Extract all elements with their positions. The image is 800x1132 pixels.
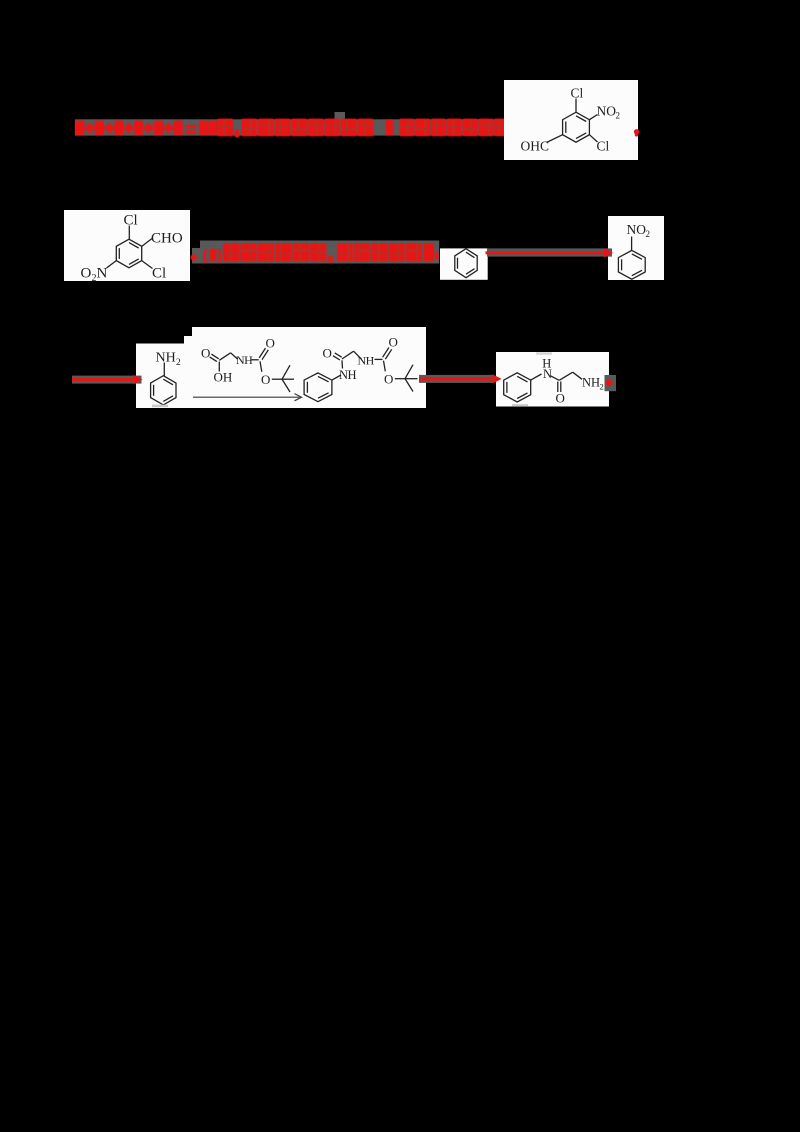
bond ring-N (G) [531, 374, 542, 380]
faint scan smudges [152, 405, 168, 408]
svg-text:2: 2 [600, 382, 604, 392]
tBu branches (F product) [405, 365, 413, 379]
white box G: glycinanilide [496, 352, 609, 407]
red CJK-style run row1 part A [242, 119, 258, 137]
reaction arrow in box F [193, 396, 300, 398]
white box A: 3,5-dichloro-4-nitrobenzaldehyde [504, 80, 638, 160]
bond C-O bottom [260, 361, 262, 372]
bond C-OH [218, 362, 220, 372]
carbamate C=O (F product) [385, 349, 391, 359]
svg-text:N: N [97, 266, 108, 282]
gray highlight band row2 [192, 248, 201, 264]
white box E: aniline [136, 344, 187, 409]
svg-text:O: O [389, 335, 398, 350]
svg-text:Cl: Cl [597, 139, 610, 154]
svg-text:2: 2 [176, 358, 181, 368]
benzene ring box C [455, 249, 477, 278]
svg-text:O: O [81, 266, 92, 282]
svg-text:CHO: CHO [151, 231, 183, 247]
carbamate C=O double bond [262, 350, 268, 360]
svg-text:OHC: OHC [521, 139, 550, 154]
benzene ring box A [563, 112, 590, 142]
svg-text:Cl: Cl [571, 86, 584, 101]
bond O-tBu [272, 378, 282, 380]
C=O double bond down (G) [557, 382, 559, 393]
C=O double bond (F product) [333, 356, 340, 360]
bond O-tBu (F product) [395, 378, 405, 380]
svg-text:O: O [323, 345, 332, 360]
bond+label Cl top (B) [128, 226, 130, 240]
red equals 26 zhong comma row1 [185, 125, 196, 128]
benzene ring box B [116, 239, 141, 268]
svg-text:O: O [261, 372, 270, 387]
white box F: reaction scheme [184, 336, 426, 408]
svg-text:NO: NO [597, 104, 617, 119]
product structure in box F: benzene ring [304, 373, 332, 402]
bond+label Cl lower-right (B) [142, 261, 153, 269]
svg-text:NH: NH [236, 353, 253, 367]
red CJK-style run row1 part B [399, 119, 414, 137]
white box B: 2,6-dichloro-4-nitrobenzaldehyde [64, 210, 190, 281]
gray highlight band row1 [75, 119, 506, 135]
bond CH2-NH2 (G) [573, 372, 582, 379]
red period row2 [191, 254, 197, 260]
svg-text:NH: NH [156, 351, 176, 366]
bond C-CH2 [219, 353, 230, 361]
bond to Cl top (A) [575, 99, 577, 113]
white box C: benzene [440, 248, 488, 279]
bond ring-NH [332, 375, 341, 380]
benzene ring box E [151, 376, 176, 405]
bond C-O bottom (F product) [384, 361, 386, 372]
red arrow row2 [487, 248, 612, 256]
white box D: nitrobenzene [608, 216, 664, 280]
red dot + gray patch after box G [605, 375, 617, 391]
bond CH2-N [231, 353, 238, 359]
tBu branches [282, 365, 290, 379]
bond to NO2 (A) [589, 115, 597, 120]
bond H-C (F product) [375, 358, 383, 360]
svg-text:OH: OH [214, 370, 233, 385]
bond to CHO / label OHC (A) [547, 135, 563, 143]
svg-text:O: O [556, 390, 565, 405]
bond H-C carbamate [252, 359, 259, 361]
red formula text row1: 3+3+6+3+3+3 [75, 119, 509, 138]
red CJK-style run row2 part A [223, 243, 239, 261]
bond to NO2 (D) [631, 237, 633, 251]
red digit row1 [386, 120, 394, 136]
svg-text:N: N [543, 367, 552, 381]
svg-text:Cl: Cl [124, 213, 138, 229]
bond to NH2 (E) [163, 363, 165, 376]
bond N-C (G) [551, 376, 560, 381]
svg-text:2: 2 [646, 229, 651, 239]
bond C-CH2 (F product) [342, 351, 354, 359]
svg-text:NH: NH [582, 375, 600, 389]
red comma after box A [634, 129, 639, 134]
bond to Cl lower-right (A) [589, 135, 597, 142]
svg-text:Cl: Cl [152, 266, 166, 282]
bond+label O2N (B) [107, 261, 117, 268]
red arrow row3 second [419, 375, 494, 383]
benzene ring box G [504, 373, 531, 402]
C=O double bond carboxyl [210, 357, 217, 362]
red CJK-style run row2 part B [337, 243, 353, 261]
red (7) row2 [204, 250, 206, 263]
svg-text:O: O [201, 346, 210, 361]
bond CH2-N (F product) [354, 351, 362, 359]
svg-text:O: O [266, 335, 275, 350]
svg-text:NH: NH [358, 353, 375, 367]
svg-text:NH: NH [339, 368, 357, 382]
svg-text:2: 2 [616, 111, 621, 121]
red arrow row3 first [72, 376, 142, 384]
bond NH-C carbonyl [341, 360, 344, 368]
svg-text:NO: NO [627, 222, 647, 237]
bond C-CH2 (G) [559, 372, 573, 380]
small gray patch above row1 text [335, 112, 346, 121]
benzene ring box D [618, 250, 645, 279]
svg-text:O: O [384, 372, 393, 387]
bond+label CHO (B) [142, 239, 152, 247]
